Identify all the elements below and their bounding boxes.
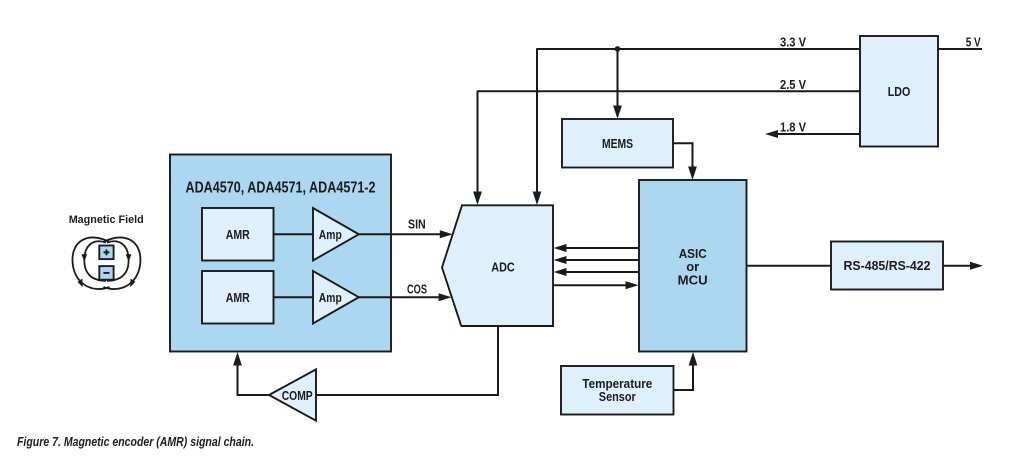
svg-text:Magnetic Field: Magnetic Field [69,214,144,226]
svg-text:COS: COS [407,282,427,296]
svg-text:Amp: Amp [319,290,342,305]
svg-text:Sensor: Sensor [599,389,636,404]
svg-text:MCU: MCU [678,272,708,287]
svg-text:Amp: Amp [319,227,342,242]
svg-text:Figure 7. Magnetic encoder (AM: Figure 7. Magnetic encoder (AMR) signal … [17,434,254,449]
svg-text:AMR: AMR [226,227,250,242]
svg-text:AMR: AMR [226,290,250,305]
svg-text:COMP: COMP [282,388,313,403]
svg-text:SIN: SIN [408,217,426,231]
svg-text:RS-485/RS-422: RS-485/RS-422 [844,258,931,273]
svg-text:MEMS: MEMS [602,136,633,151]
svg-text:5 V: 5 V [966,35,982,49]
svg-text:1.8 V: 1.8 V [780,120,807,134]
svg-text:2.5 V: 2.5 V [780,78,807,92]
svg-text:ADA4570, ADA4571, ADA4571-2: ADA4570, ADA4571, ADA4571-2 [186,180,376,197]
svg-text:ADC: ADC [491,259,515,274]
svg-text:LDO: LDO [888,84,911,99]
svg-text:3.3 V: 3.3 V [780,35,807,49]
